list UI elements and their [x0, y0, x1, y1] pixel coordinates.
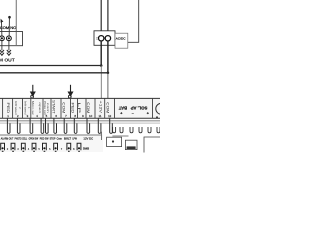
- svg-text:AC/DC: AC/DC: [116, 36, 126, 40]
- svg-text:M OUT: M OUT: [0, 58, 15, 63]
- svg-text:COM NO: COM NO: [0, 26, 17, 30]
